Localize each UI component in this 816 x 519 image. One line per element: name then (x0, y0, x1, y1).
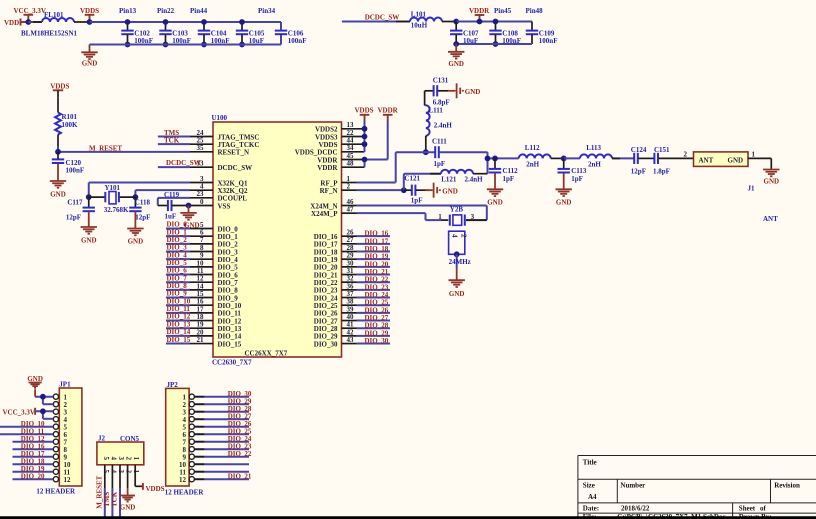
pin 8 DIO_3 (left) (190, 244, 238, 256)
wire DCOUPL (158, 198, 190, 206)
pin circle JP1-1 (53, 394, 58, 399)
svg-text:2nH: 2nH (588, 161, 601, 169)
svg-text:DIO_22: DIO_22 (228, 450, 252, 458)
svg-text:GND: GND (50, 191, 66, 199)
wire C113 to L113 (564, 157, 580, 159)
ground GND dcdc rail (448, 44, 464, 68)
svg-text:CC2630_7X7: CC2630_7X7 (212, 358, 252, 366)
svg-text:Pin45: Pin45 (494, 7, 512, 15)
wire bypass bottom rail (90, 22, 282, 45)
svg-text:C151: C151 (654, 146, 670, 154)
pin circle JP2-6 (189, 432, 194, 437)
wire C111 to corner (439, 152, 487, 174)
wire net DIO_19 (JP1) (13, 471, 54, 473)
wire JP2 pin 10 (194, 463, 249, 465)
wire X24M_P (357, 213, 449, 220)
capacitor C124 (631, 146, 647, 176)
junction VSS/C119/GND (186, 203, 192, 209)
wire RF_N riser L121 (404, 174, 441, 190)
junction VDDR rail (477, 19, 483, 25)
ferrite bead FL101 (21, 11, 78, 38)
net label DIO_26 (365, 306, 389, 314)
junction VDDR pin45 (362, 157, 368, 163)
pin 15 DIO_9 (left) (190, 290, 238, 302)
pin circle JP1-9 (53, 454, 58, 459)
net label DIO_9 (167, 290, 188, 298)
svg-text:Y101: Y101 (105, 184, 121, 192)
svg-text:GND: GND (764, 178, 780, 186)
net label DIO_18 (JP1) (21, 458, 45, 466)
wire net DIO_18 (JP1) (13, 463, 54, 465)
pin 5 CON5 number (102, 470, 110, 474)
ground GND C131 (448, 83, 480, 98)
svg-text:J1: J1 (748, 184, 756, 192)
svg-text:GND: GND (128, 238, 144, 246)
ground GND C113 (556, 189, 572, 206)
label Pin34 (258, 7, 276, 15)
net label TCK (CON5) (111, 491, 119, 507)
pin 3 CON5 inner label (117, 457, 125, 461)
wire Y2B case to GND (456, 254, 458, 280)
svg-text:1uF: 1uF (165, 213, 177, 221)
pin circle JP2-7 (189, 439, 194, 444)
svg-text:Pin48: Pin48 (526, 7, 544, 15)
junction C103 bottom (163, 42, 169, 48)
svg-text:47: 47 (347, 206, 355, 214)
pin circle JP1-12 (53, 477, 58, 482)
pin 42 DIO_29 (right) (314, 328, 357, 340)
connector JP2 body (165, 381, 205, 497)
junction C105 bottom (239, 42, 245, 48)
pin 27 DIO_17 (right) (314, 236, 357, 248)
net label GND (DIO_0 row) (184, 221, 200, 229)
junction C105 top (239, 19, 245, 25)
capacitor C131 (425, 77, 450, 107)
net label DIO_24 (365, 291, 389, 299)
net label DIO_21 (365, 268, 389, 276)
svg-text:43: 43 (347, 336, 355, 344)
ground GND C112 (487, 189, 503, 206)
capacitor C103 (159, 22, 191, 45)
net label DIO_11 (167, 305, 191, 313)
capacitor C118 (129, 197, 150, 228)
svg-text:C112: C112 (503, 167, 519, 175)
pin lead CON5-2 (127, 465, 129, 488)
pin 2 label (ANT) (684, 151, 688, 159)
net label DIO_10 (JP1) (21, 420, 45, 428)
svg-text:12pF: 12pF (66, 214, 81, 222)
capacitor C119 (158, 191, 189, 221)
svg-text:0: 0 (200, 198, 204, 206)
junction C112 (492, 156, 498, 162)
pin 5 CON5 inner label (102, 457, 110, 461)
svg-text:35: 35 (197, 144, 205, 152)
svg-text:Pin13: Pin13 (119, 7, 137, 15)
wire TMS (CON5) (111, 488, 113, 519)
power VDDS (chip) (355, 106, 374, 121)
net label DIO_15 (167, 336, 191, 344)
pin 43 DIO_30 (right) (314, 336, 357, 348)
wire net DIO_8 (166, 289, 190, 291)
port VDD (4, 19, 28, 28)
wire VDDR top rail (456, 21, 532, 23)
inductor L113 (580, 144, 612, 169)
svg-text:1: 1 (132, 470, 140, 474)
pin circle JP1-11 (53, 469, 58, 474)
svg-text:Pin22: Pin22 (157, 7, 175, 15)
svg-text:TCK: TCK (111, 491, 119, 507)
pin lead CON5-5 (104, 465, 106, 488)
svg-text:X24M_P: X24M_P (311, 210, 338, 218)
label Pin48 (526, 7, 544, 15)
pin 48 VDDR (right) (317, 160, 364, 172)
svg-text:3: 3 (117, 457, 125, 461)
pin 4 X32K_Q2 (left) (190, 183, 248, 195)
wire TCK (158, 143, 190, 145)
wire net DIO_20 (JP1) (13, 478, 54, 480)
capacitor C113 (558, 158, 587, 189)
net label DIO_8 (167, 282, 188, 290)
svg-text:JP2: JP2 (167, 381, 179, 389)
svg-text:Date:: Date: (583, 505, 599, 513)
svg-text:2018/6/22: 2018/6/22 (621, 505, 650, 513)
pin 2 CON5 number (125, 470, 133, 474)
wire VDDS pin bus (364, 121, 366, 152)
net label DIO_26 (JP2) (228, 420, 252, 428)
pin 38 DIO_25 (right) (314, 298, 357, 310)
junction JP1 VCC (40, 408, 46, 414)
junction C108 top (493, 19, 499, 25)
pin circle JP1-8 (53, 447, 58, 452)
capacitor C107 (450, 22, 479, 46)
wire JP2 pin 3 (194, 411, 249, 413)
pin circle JP1-5 (53, 424, 58, 429)
wire JP2 pin 1 (194, 396, 249, 398)
pin 3 CON5 number (117, 470, 125, 474)
pin 46 X24M_N (right) (310, 198, 356, 210)
junction X32K_Q2 node (133, 194, 139, 200)
wire RF_N (357, 189, 404, 191)
power VCC_3.3V (14, 7, 46, 22)
wire JP2 pin 9 (194, 456, 249, 458)
wire JP2 pin 5 (194, 426, 249, 428)
svg-text:2.4nH: 2.4nH (434, 122, 453, 130)
wire net DIO_9 (166, 297, 190, 299)
wire net DIO_28 (357, 327, 391, 329)
pin 3 X32K_Q1 (left) (190, 175, 248, 187)
svg-text:C119: C119 (164, 191, 180, 199)
pin 32 DIO_22 (right) (314, 275, 357, 287)
svg-text:CC26XX_7X7: CC26XX_7X7 (245, 349, 288, 357)
svg-text:C117: C117 (67, 199, 83, 207)
wire JP2 pin 11 (194, 471, 249, 473)
pin 4 CON5 number (109, 470, 117, 474)
pin lead CON5-3 (119, 465, 121, 488)
wire TMS (158, 136, 190, 138)
svg-text:GND: GND (120, 504, 136, 512)
net label DIO_2 (167, 236, 188, 244)
resistor R101 (55, 97, 78, 146)
wire GND to JP1 pins 1-2 (35, 397, 53, 405)
wire net DIO_17 (357, 243, 391, 245)
net label DIO_27 (JP2) (228, 413, 252, 421)
svg-text:VDDR: VDDR (378, 106, 399, 114)
pin circle JP2-5 (189, 424, 194, 429)
svg-text:5: 5 (102, 457, 110, 461)
svg-text:32.768K: 32.768K (104, 206, 129, 214)
net label DIO_1 (167, 228, 188, 236)
net label DIO_20 (365, 260, 389, 268)
net label DIO_4 (167, 251, 188, 259)
pin circle JP2-9 (189, 454, 194, 459)
wire JP2 pin 7 (194, 441, 249, 443)
net label DIO_29 (365, 329, 389, 337)
net label DIO_5 (167, 259, 188, 267)
svg-text:VDD: VDD (4, 19, 19, 27)
capacitor C105 (236, 22, 265, 45)
svg-text:L112: L112 (525, 144, 540, 152)
wire net DIO_15 (166, 343, 190, 345)
label Pin45 (494, 7, 512, 15)
net label DIO_6 (167, 267, 188, 275)
wire net DIO_14 (166, 335, 190, 337)
wire M_RESET (58, 151, 190, 153)
junction C102 top (125, 19, 131, 25)
connector JP1 body (36, 380, 82, 495)
svg-text:L101: L101 (411, 11, 427, 19)
net label DIO_22 (365, 276, 389, 284)
wire R101 to M_RESET (57, 146, 59, 152)
net label DIO_10 (167, 297, 191, 305)
junction C103 top (163, 19, 169, 25)
net label DIO_18 (365, 245, 389, 253)
pin 2 CON5 inner label (125, 457, 133, 461)
svg-text:GND: GND (487, 199, 503, 207)
wire net DIO_25 (357, 304, 391, 306)
capacitor C151 (653, 146, 670, 176)
wire net DIO_21 (357, 274, 391, 276)
pin circle JP1-7 (53, 439, 58, 444)
junction C107 top (453, 19, 459, 25)
pin circle JP1-10 (53, 462, 58, 467)
crystal Y101 (89, 184, 136, 214)
svg-text:2: 2 (125, 457, 133, 461)
svg-text:Number: Number (620, 482, 645, 490)
pin 18 DIO_12 (left) (190, 313, 242, 325)
capacitor C104 (198, 22, 230, 45)
inductor L121 (441, 170, 483, 184)
capacitor C120 (52, 152, 84, 181)
svg-text:12 HEADER: 12 HEADER (165, 489, 205, 497)
net label DIO_25 (365, 299, 389, 307)
junction VDDS rail (87, 19, 93, 25)
pin 1 CON5 inner label (132, 457, 140, 461)
svg-text:VSS: VSS (218, 202, 231, 210)
svg-text:GND: GND (465, 88, 481, 96)
pin 6 DIO_1 (left) (190, 229, 238, 241)
pin circle JP2-4 (189, 417, 194, 422)
net label TMS (CON5) (103, 492, 111, 507)
pin 37 DIO_24 (right) (314, 290, 357, 302)
net label DIO_27 (365, 314, 389, 322)
svg-text:L111: L111 (429, 107, 444, 115)
wire net DIO_19 (357, 258, 391, 260)
svg-text:48: 48 (347, 160, 355, 168)
wire net DIO_10 (166, 304, 190, 306)
net label DCDC_SW33 (166, 159, 201, 167)
pin 7 DIO_2 (left) (190, 236, 238, 248)
svg-text:RF_N: RF_N (320, 187, 338, 195)
net label DIO_16 (365, 230, 389, 238)
wire DCDC_SW (pin33) (158, 166, 190, 168)
pin 19 DIO_13 (left) (190, 321, 242, 333)
net label DIO_21 (JP2) (228, 473, 252, 481)
pin 45 VDDR (right) (317, 152, 364, 164)
wire net DIO_22 (357, 281, 391, 283)
inductor L101 (410, 11, 442, 30)
junction C108 bottom (493, 41, 499, 47)
crystal case Y2B pins 2/4 (449, 231, 468, 254)
wire net DIO_11 (JP1) (0, 433, 53, 435)
svg-text:VDDR: VDDR (469, 7, 490, 15)
svg-text:VDDR: VDDR (317, 164, 338, 172)
net label DIO_14 (167, 328, 191, 336)
svg-text:6.8pF: 6.8pF (433, 99, 450, 107)
wire DCDC_SW (342, 21, 410, 23)
pin circle JP2-1 (189, 394, 194, 399)
pin 5 DIO_0 (left) (190, 221, 238, 233)
net label DIO_7 (167, 274, 188, 282)
svg-text:GND: GND (728, 156, 744, 164)
antenna connector J1 (694, 151, 779, 223)
svg-text:1: 1 (752, 151, 756, 159)
svg-text:Sheet: Sheet (739, 505, 756, 513)
pin 39 DIO_26 (right) (314, 305, 357, 317)
junction C104 bottom (201, 42, 207, 48)
wire L113 to C124 (612, 157, 634, 159)
svg-text:21: 21 (197, 336, 205, 344)
svg-text:DCDC_SW: DCDC_SW (218, 164, 253, 172)
svg-text:Pin44: Pin44 (190, 7, 208, 15)
wire net DIO_16 (JP1) (13, 448, 54, 450)
wire net DIO_2 (166, 243, 190, 245)
pin 34 VDDS_DCDC (right) (295, 144, 365, 156)
junction Y2B case (454, 251, 460, 257)
net label TMS (164, 129, 179, 137)
ground GND antenna (763, 170, 779, 186)
wire net DIO_11 (166, 312, 190, 314)
svg-text:DCDC_SW: DCDC_SW (365, 13, 400, 21)
net label M_RESET (89, 144, 122, 152)
svg-text:of: of (760, 505, 767, 513)
junction C107 bottom (453, 41, 459, 47)
wire net DIO_7 (166, 281, 190, 283)
svg-text:RESET_N: RESET_N (218, 149, 250, 157)
net label DIO_12 (167, 313, 191, 321)
svg-text:GND: GND (449, 290, 465, 298)
svg-text:Revision: Revision (774, 482, 800, 490)
svg-text:JP1: JP1 (59, 380, 71, 388)
wire L121 to corner (473, 173, 488, 175)
svg-text:1: 1 (132, 457, 140, 461)
net label DIO_23 (365, 283, 389, 291)
sheet bottom border (0, 516, 816, 519)
net label DIO_17 (JP1) (21, 450, 45, 458)
pin 24 JTAG_TMSC (left) (190, 129, 259, 141)
pin 31 DIO_21 (right) (314, 267, 357, 279)
pin circle JP1-3 (53, 409, 58, 414)
wire JP2 pin 2 (194, 403, 249, 405)
wire net DIO_17 (JP1) (13, 456, 54, 458)
svg-text:2.4nH: 2.4nH (465, 176, 484, 184)
net label DIO_17 (365, 237, 389, 245)
IC U100 CC2630 body (212, 114, 342, 366)
wire JP2 pin 4 (194, 418, 249, 420)
svg-text:C111: C111 (432, 138, 447, 146)
svg-text:1pF: 1pF (411, 196, 423, 204)
wire net DIO_12 (166, 320, 190, 322)
svg-text:VDDS: VDDS (50, 82, 69, 90)
power VDDR (chip) (378, 106, 399, 121)
pin 25 JTAG_TCKC (left) (190, 137, 259, 149)
wire RF_P riser (357, 152, 435, 182)
svg-text:3: 3 (117, 470, 125, 474)
svg-text:DIO_30: DIO_30 (314, 340, 338, 348)
pin 35 RESET_N (left) (190, 144, 249, 156)
net label DIO_3 (167, 244, 188, 252)
svg-text:L121: L121 (441, 176, 457, 184)
svg-text:DIO_20: DIO_20 (21, 473, 45, 481)
pin 30 DIO_20 (right) (314, 259, 357, 271)
svg-text:1.8pF: 1.8pF (653, 168, 670, 176)
ground GND VSS (180, 206, 196, 220)
wire net DIO_10 (JP1) (0, 426, 53, 428)
wire net DIO_4 (166, 258, 190, 260)
pin circle JP2-8 (189, 447, 194, 452)
svg-text:GND: GND (448, 60, 464, 68)
wire VCC to FL101 (28, 21, 42, 23)
svg-text:12: 12 (179, 476, 187, 484)
svg-text:1pF: 1pF (571, 175, 583, 183)
svg-text:2: 2 (347, 183, 351, 191)
pin 23 DCOUPL (left) (190, 190, 247, 202)
wire net DIO_29 (357, 335, 391, 337)
wire C151 to ANT (658, 157, 693, 159)
svg-text:J2: J2 (98, 435, 106, 443)
svg-text:DIO_15: DIO_15 (167, 336, 191, 344)
pin circle JP2-2 (189, 402, 194, 407)
label Pin22 (157, 7, 175, 15)
crystal Y2B (438, 206, 487, 226)
wire net DIO_30 (357, 343, 391, 345)
svg-text:DIO_21: DIO_21 (228, 473, 252, 481)
pin 44 VDDS (right) (318, 137, 364, 149)
wire VDDS top rail (90, 21, 282, 23)
capacitor C111 (432, 138, 447, 169)
svg-text:BLM18HE152SN1: BLM18HE152SN1 (21, 30, 78, 38)
capacitor C108 (489, 22, 521, 46)
svg-text:1: 1 (438, 213, 442, 221)
svg-text:Y2B: Y2B (450, 206, 464, 214)
net label DCDC_SW (365, 13, 400, 21)
title block texts (583, 459, 800, 519)
pin circle JP2-11 (189, 469, 194, 474)
wire L111 to C111 rail (425, 136, 427, 153)
wire JP2 pin 12 (194, 478, 249, 480)
net label DIO_19 (JP1) (21, 465, 45, 473)
pin circle JP2-3 (189, 409, 194, 414)
wire TCK (CON5) (119, 488, 121, 519)
